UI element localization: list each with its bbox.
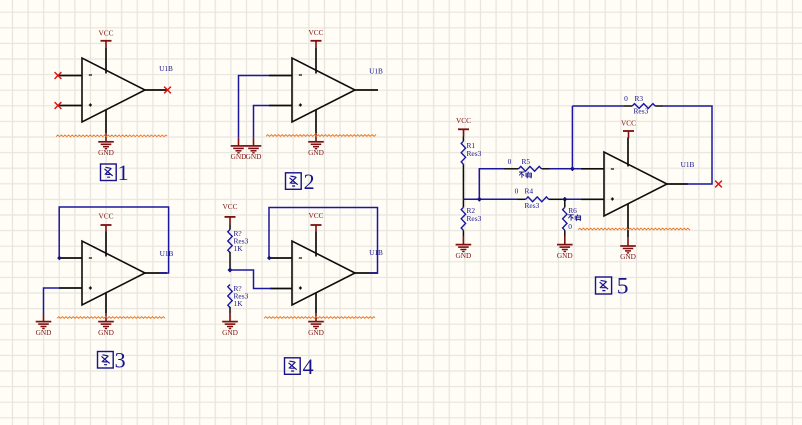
wire branch up to R5 fig5: [479, 169, 504, 200]
svg-text:GND: GND: [455, 251, 471, 260]
power port VCC opamp fig5: [621, 118, 636, 138]
power port VCC divider fig4: [222, 202, 237, 224]
pin V- fig4: [315, 293, 317, 313]
op-amp U1B fig4: [292, 241, 355, 305]
svg-text:GND: GND: [36, 328, 52, 337]
svg-text:GND: GND: [98, 148, 114, 157]
wire R5 to IN- fig5: [550, 168, 581, 170]
caption 图1: [101, 164, 117, 181]
pin R5 left fig5: [504, 168, 519, 170]
wire R1 to node fig5: [462, 164, 464, 199]
pin R4 left fig5: [518, 198, 526, 200]
junction feedback tap fig5: [570, 166, 575, 171]
op-amp U1B fig2: [292, 58, 355, 122]
svg-text:GND: GND: [308, 148, 324, 157]
power port GND mid fig5: [557, 236, 573, 260]
svg-text:GND: GND: [308, 328, 324, 337]
pin V- fig3: [105, 293, 107, 313]
caption 图2: [286, 173, 302, 190]
power port GND divider fig4: [222, 313, 238, 337]
svg-text:U1B: U1B: [160, 249, 174, 258]
pin OUT fig2: [355, 89, 378, 91]
wire feedback out to IN- fig3: [59, 207, 168, 273]
wire R6 from rail fig5: [564, 199, 566, 207]
svg-text:R4: R4: [525, 187, 534, 196]
wire R6 to GND fig5: [564, 230, 566, 236]
resistor R1 (Res3) fig5: [461, 141, 465, 164]
svg-text:Res3: Res3: [467, 149, 482, 158]
power port GND opamp fig4: [308, 313, 324, 337]
power port GND input fig3: [36, 313, 52, 337]
svg-text:0: 0: [624, 94, 628, 103]
op-amp U1B fig3: [82, 241, 145, 305]
svg-text:VCC: VCC: [98, 212, 113, 221]
wire R2 to GND fig5: [462, 230, 464, 236]
resistor R? top (Res3 1K) fig4: [228, 230, 232, 253]
svg-text:Res3: Res3: [525, 201, 540, 210]
svg-text:U1B: U1B: [369, 67, 383, 76]
svg-text:VCC: VCC: [308, 28, 323, 37]
pin IN- fig5: [581, 168, 604, 170]
svg-text:GND: GND: [222, 328, 238, 337]
svg-text:GND: GND: [231, 152, 247, 161]
pin R5 right fig5: [542, 168, 550, 170]
pin V- fig5: [627, 204, 629, 238]
svg-text:VCC: VCC: [222, 202, 237, 211]
wire IN+ to GND fig3: [44, 288, 61, 313]
svg-text:U1B: U1B: [159, 64, 173, 73]
power port GND fig1: [98, 133, 114, 157]
pin IN+ fig1: [58, 105, 82, 107]
resistor R6 (0 not-fitted) fig5: [563, 207, 567, 230]
svg-text:Res3: Res3: [467, 214, 482, 223]
orange marker line fig1: [56, 135, 167, 137]
power port GND opamp fig5: [620, 237, 636, 261]
svg-text:Res3: Res3: [634, 107, 649, 116]
resistor R? bottom (Res3 1K) fig4: [228, 285, 232, 308]
svg-text:R3: R3: [635, 94, 644, 103]
op-amp U1B fig1: [82, 58, 145, 122]
svg-text:VCC: VCC: [456, 116, 471, 125]
wire feedback top left fig5: [572, 105, 624, 107]
pin IN+ fig4: [270, 288, 292, 290]
junction branch base fig5: [477, 197, 482, 202]
power port VCC fig2: [308, 28, 323, 48]
junction at IN- fig4: [267, 256, 272, 261]
svg-text:U1B: U1B: [369, 248, 383, 257]
orange marker line fig2: [266, 135, 376, 137]
no-ERC marker on IN- fig1: [55, 72, 62, 79]
power port GND left fig5: [455, 236, 471, 260]
no-ERC marker on OUT fig1: [164, 87, 171, 94]
pin IN- fig4: [270, 257, 292, 259]
svg-text:2: 2: [304, 169, 315, 194]
wire R2 from node fig5: [462, 199, 464, 207]
pin V+ fig3: [105, 232, 107, 257]
pin OUT fig3: [145, 272, 167, 274]
caption 图5: [596, 277, 612, 294]
junction R6 tap fig5: [562, 197, 567, 202]
wire node to IN+ fig4: [230, 270, 271, 289]
orange marker line fig3: [57, 317, 165, 319]
pin IN- fig1: [58, 75, 82, 77]
pin R4 right fig5: [549, 198, 562, 200]
pin V+ fig1: [105, 48, 107, 74]
pin IN- fig2: [269, 75, 292, 77]
no-ERC marker on IN+ fig1: [55, 102, 62, 109]
power port GND left fig2: [231, 137, 247, 161]
svg-text:R6: R6: [568, 206, 577, 215]
pin IN+ fig3: [59, 287, 82, 289]
op-amp U1B fig5: [604, 152, 667, 216]
svg-text:GND: GND: [557, 251, 573, 260]
orange marker line fig5: [578, 228, 690, 230]
label 不贴 R5 fig5: [519, 172, 531, 179]
wire VCC to R1 fig5: [462, 137, 464, 142]
resistor R2 (Res3) fig5: [461, 207, 465, 230]
svg-text:1K: 1K: [234, 299, 244, 308]
pin V+ fig4: [315, 232, 317, 257]
pin V+ fig2: [315, 48, 317, 74]
wire R-top to node fig4: [229, 252, 231, 270]
svg-text:GND: GND: [620, 252, 636, 261]
pin R3 right fig5: [655, 105, 663, 107]
svg-text:VCC: VCC: [621, 118, 636, 127]
label 不贴 R6 fig5: [568, 214, 580, 221]
wire feedback up fig5: [571, 106, 573, 169]
wire R-bottom to GND fig4: [229, 307, 231, 313]
svg-text:U1B: U1B: [681, 160, 695, 169]
pin IN- fig3: [59, 257, 82, 259]
caption 图4: [285, 358, 301, 375]
wire feedback top right fig5: [663, 106, 712, 184]
power port GND right fig2: [246, 137, 262, 161]
power port VCC opamp fig4: [308, 211, 323, 232]
wire node rail to R4 fig5: [463, 198, 517, 200]
orange marker line fig4: [264, 317, 375, 319]
pin OUT fig5: [667, 183, 688, 185]
wire R4 to IN+ fig5: [562, 198, 581, 200]
pin IN+ fig2: [269, 105, 292, 107]
pin V+ fig5: [627, 138, 629, 167]
power port VCC fig3: [98, 212, 113, 233]
power port GND opamp fig3: [98, 313, 114, 337]
resistor R3 (0 Res3) fig5: [632, 104, 655, 109]
pin R3 left fig5: [624, 105, 632, 107]
power port VCC left fig5: [456, 116, 471, 136]
pin OUT fig4: [355, 272, 378, 274]
pin V- fig2: [315, 110, 317, 133]
svg-text:GND: GND: [246, 152, 262, 161]
pin V- fig1: [105, 110, 107, 133]
no-ERC marker on OUT fig5: [715, 181, 722, 188]
pin IN+ fig5: [581, 198, 604, 200]
svg-text:0: 0: [515, 187, 519, 196]
wire VCC to R-top fig4: [229, 224, 231, 229]
svg-text:VCC: VCC: [98, 29, 113, 38]
resistor R5 (0 not-fitted) fig5: [519, 166, 542, 171]
svg-text:1K: 1K: [234, 244, 244, 253]
svg-text:0: 0: [568, 222, 572, 231]
wire feedback out to IN- fig4: [269, 208, 378, 274]
power port VCC fig1: [98, 29, 113, 48]
wire IN- to GND fig2: [239, 76, 270, 138]
pin OUT fig1: [145, 89, 167, 91]
svg-text:4: 4: [303, 354, 314, 379]
junction at IN- fig3: [57, 256, 62, 261]
wire IN+ to GND fig2: [254, 106, 270, 138]
svg-text:5: 5: [617, 274, 629, 300]
svg-text:1: 1: [118, 160, 129, 185]
caption 图3: [98, 352, 114, 369]
svg-text:R5: R5: [522, 157, 531, 166]
svg-text:3: 3: [115, 348, 126, 373]
svg-text:GND: GND: [98, 328, 114, 337]
power port GND opamp fig2: [308, 133, 324, 157]
junction node divider fig4: [228, 268, 233, 273]
resistor R4 (0 Res3) fig5: [526, 197, 549, 202]
svg-text:0: 0: [508, 157, 512, 166]
svg-text:VCC: VCC: [308, 211, 323, 220]
